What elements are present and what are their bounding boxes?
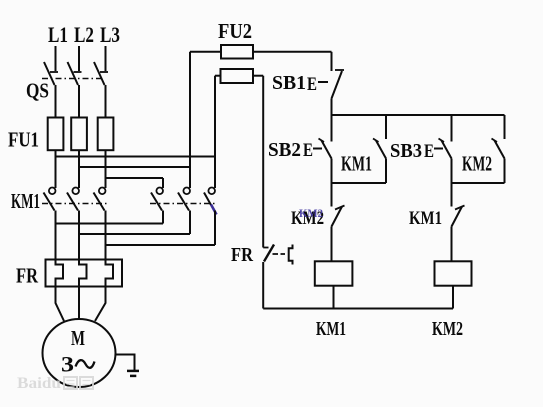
wire control bus (332, 114, 505, 116)
wire motor to ground (115, 355, 135, 371)
wire merge phase 2 (79, 233, 190, 235)
fuse FU2 element 2 (221, 69, 254, 83)
motor ~ wave (76, 360, 95, 368)
wire KM1 interlock to KM2 coil (451, 227, 453, 262)
wire branch1 to KM2 interlock (331, 183, 333, 207)
contact KM1 aux serif (373, 139, 379, 143)
svg-text:KM2: KM2 (299, 206, 323, 220)
contactor KM2 pole 1 blade (151, 193, 162, 211)
contact KM1 interlock blade (NC) (452, 207, 463, 227)
svg-text:KM2: KM2 (462, 152, 492, 176)
wire FU2-1 left (190, 51, 221, 53)
wire L2 drop to QS (78, 46, 80, 71)
coil KM1 (315, 261, 353, 285)
svg-text:E: E (303, 140, 313, 161)
svg-text:KM1: KM1 (409, 208, 442, 229)
contactor KM1 pole 3 blade (94, 193, 105, 211)
wire control rail down to SB1 (331, 52, 333, 71)
switch QS pole 3 blade (94, 62, 105, 85)
pushbutton SB3 serif (439, 139, 445, 143)
svg-text:L3: L3 (100, 22, 120, 47)
wire rejoin branch 1 (332, 182, 387, 184)
wire FU1 to KM1 contacts phase 3 (105, 150, 107, 188)
wire merge phase 1 (56, 223, 164, 225)
wire KM1 pole 1 lower (55, 211, 57, 260)
svg-text:KM1: KM1 (11, 189, 40, 213)
svg-text:SB3: SB3 (390, 140, 422, 162)
pushbutton SB2 blade (NO) (322, 141, 332, 159)
svg-text:FU1: FU1 (8, 128, 39, 152)
pushbutton SB1 tick (335, 69, 344, 71)
wire KM2 pole 2 lower (189, 211, 191, 235)
svg-text:FU2: FU2 (218, 19, 252, 43)
wire KM2 coil to bottom rail (452, 286, 454, 309)
pushbutton SB3 blade (NO) (442, 141, 452, 159)
wire FU2-2 down to L1 tap and KM2 pole 3 (214, 76, 216, 188)
contactor KM1 pole 1 fixed contact (49, 188, 56, 195)
wire KM1 pole 2 lower (78, 211, 80, 260)
pushbutton SB2 actuator link (313, 148, 322, 150)
contactor KM1 pole 3 fixed contact (99, 188, 106, 195)
watermark Baidu (17, 375, 93, 392)
wire L3 drop to QS (105, 46, 107, 71)
coil KM2 (435, 261, 472, 285)
svg-text:FR: FR (16, 264, 39, 288)
svg-text:QS: QS (26, 79, 49, 103)
wire FU2-1 right to control rail (253, 51, 332, 53)
wire KM2 pole 1 lower (162, 211, 164, 224)
svg-text:E: E (424, 141, 434, 162)
contactor KM2 linkage (150, 203, 216, 205)
contactor KM2 pole 2 blade (178, 193, 189, 211)
switch QS pole 3 tick (100, 71, 108, 73)
svg-text:KM1: KM1 (341, 152, 372, 176)
svg-text:FR: FR (231, 244, 253, 266)
fuse FU1 element 2 (71, 118, 87, 151)
svg-text:SB2: SB2 (268, 139, 301, 161)
wire bus to SB3 (451, 115, 453, 142)
contactor KM2 pole 3 blade upper (204, 193, 211, 206)
wire KM1 aux down (385, 159, 387, 184)
switch QS pole 2 blade (68, 62, 79, 85)
thermal relay FR box (46, 260, 123, 287)
wire bus to SB2 (331, 115, 333, 142)
fuse FU2 element 1 (221, 45, 253, 59)
wire FU2-2 right (253, 75, 263, 77)
svg-text:3: 3 (61, 352, 74, 377)
switch QS linkage (42, 78, 101, 80)
wire rejoin branch 2 (452, 182, 505, 184)
svg-text:L1: L1 (48, 22, 68, 47)
wire FR to motor phase 3 (95, 287, 106, 322)
svg-text:KM1: KM1 (316, 318, 346, 340)
wire FR contact down to bottom rail (262, 262, 264, 309)
svg-text:KM2: KM2 (432, 318, 463, 340)
wire L1 tap to KM2 pole 3 (56, 156, 216, 158)
wire FR to motor phase 1 (56, 287, 65, 322)
contactor KM1 pole 2 fixed contact (72, 188, 79, 195)
wire FU2-2 left (215, 75, 221, 77)
wire bus to KM2 aux (504, 115, 506, 139)
fuse FU1 element 3 (98, 118, 114, 151)
svg-text:E: E (307, 74, 317, 95)
pushbutton SB1 actuator link (318, 81, 328, 83)
wire L2 tap to KM2 pole 2 (79, 166, 190, 168)
svg-text:Baidu: Baidu (17, 375, 61, 392)
pushbutton SB1 blade (NC) (332, 71, 343, 99)
contactor KM2 pole 3 blade lower (blue watermark) (211, 205, 217, 215)
thermal relay FR heater 1 (56, 259, 64, 288)
ground bar 1 (127, 370, 139, 373)
wire QS to FU1 phase 1 (55, 85, 57, 118)
svg-text:SB1: SB1 (272, 72, 306, 94)
switch QS pole 1 tick (50, 71, 58, 73)
svg-text:M: M (71, 326, 85, 350)
wire KM2 interlock to KM1 coil (331, 227, 333, 262)
wire SB1 to bus (331, 99, 333, 116)
wire FU1 to KM1 contacts phase 2 (78, 150, 80, 188)
contact KM2 interlock blade (NC) (332, 207, 343, 227)
wire FR to motor phase 2 (78, 287, 80, 321)
contactor KM2 pole 2 fixed contact (183, 188, 190, 195)
contactor KM1 pole 2 blade (67, 193, 78, 211)
contactor KM1 pole 1 blade (44, 193, 55, 211)
contactor KM2 pole 3 fixed contact (208, 188, 215, 195)
wire QS to FU1 phase 3 (105, 85, 107, 118)
pushbutton SB3 actuator link (434, 148, 443, 150)
wire KM1 coil to bottom rail (333, 286, 335, 309)
wire L3 tap to KM2 pole 1 (106, 177, 164, 179)
thermal contact FR actuator bracket (289, 245, 293, 265)
contact KM2 interlock tick (335, 206, 345, 210)
contact KM2 aux serif (492, 139, 498, 143)
wire KM1 pole 3 lower (105, 211, 107, 260)
wire QS to FU1 phase 2 (78, 85, 80, 118)
wire SB3 down (451, 159, 453, 184)
wire L1 drop to QS (55, 46, 57, 71)
thermal relay FR heater 2 (79, 259, 87, 288)
wire bus to KM1 aux (385, 115, 387, 139)
pushbutton SB2 serif (319, 139, 325, 143)
thermal contact FR link dashes (273, 253, 286, 255)
thermal contact FR blade (NC) (264, 245, 274, 262)
fuse FU1 element 1 (48, 118, 64, 151)
wire FU2-2 down to FR contact (262, 76, 264, 248)
contact KM1 interlock tick (455, 206, 465, 210)
wire FU1 to KM1 contacts phase 1 (55, 150, 57, 188)
ground bar 2 (130, 375, 136, 378)
wire bottom rail (263, 308, 453, 310)
contact KM1 aux blade (NO) (376, 141, 386, 159)
contactor KM2 pole 1 fixed contact (156, 188, 163, 195)
wire branch2 to KM1 interlock (451, 183, 453, 207)
contact KM2 aux blade (NO) (495, 141, 505, 159)
wire FU2-1 down to KM2 pole 2 (189, 52, 191, 188)
motor M (43, 319, 116, 387)
wire KM2 aux down (504, 159, 506, 184)
svg-text:L2: L2 (74, 22, 94, 47)
wire merge phase 3 (106, 244, 216, 246)
thermal contact FR tick (263, 247, 268, 249)
wire KM2 pole 1 upper stub (162, 178, 164, 188)
switch QS pole 1 blade (44, 62, 55, 85)
wire KM2 pole 3 lower (214, 211, 216, 246)
wire SB2 down (331, 159, 333, 184)
contactor KM1 linkage (42, 203, 107, 205)
thermal relay FR heater 3 (106, 259, 114, 288)
switch QS pole 2 tick (74, 71, 82, 73)
